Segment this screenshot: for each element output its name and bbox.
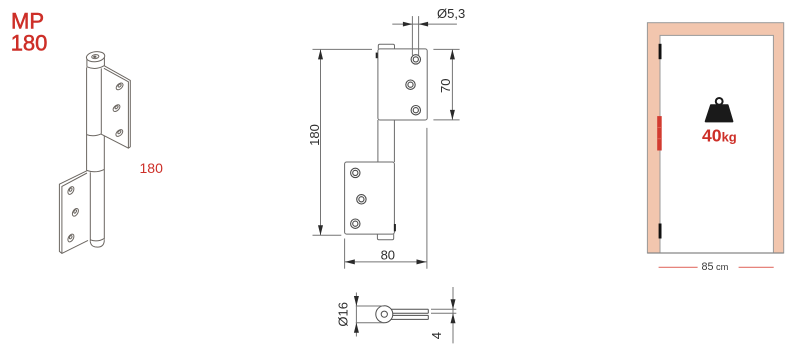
dimension 80 [345, 128, 427, 269]
door opening (white) [660, 35, 773, 253]
upper leaf (isometric) [101, 66, 130, 148]
barrel body fill [87, 66, 105, 240]
middle barrel section right edge [103, 136, 105, 240]
dimension Ø5,3 [392, 16, 457, 55]
top plate [378, 49, 427, 120]
hinge mark black bottom [659, 224, 662, 239]
lower leaf hole 1 [67, 186, 76, 196]
upper knuckle of barrel [86, 67, 88, 170]
svg-text:80: 80 [381, 248, 395, 263]
dimension 70 [433, 49, 459, 120]
barrel top cap [86, 51, 105, 69]
isometric hinge view [59, 51, 130, 254]
lower leaf hole 2 [71, 207, 80, 217]
svg-text:180: 180 [307, 124, 322, 146]
2D front view of hinge [345, 44, 428, 240]
upper leaf hole 3 [115, 128, 124, 137]
upper leaf hole 2 [112, 103, 121, 112]
barrel cross-section circle [376, 306, 393, 323]
svg-text:Ø16: Ø16 [336, 302, 351, 327]
bottom plate [345, 162, 395, 234]
hinge mark red (3 segments) [657, 116, 662, 150]
lower knuckle left edge [89, 172, 91, 242]
lower leaf (isometric) [59, 171, 88, 254]
bottom view (barrel cross-section + leaf edge) [376, 306, 429, 323]
svg-text:180: 180 [140, 160, 164, 176]
door diagram [647, 23, 783, 273]
top tab [378, 44, 394, 49]
svg-text:4: 4 [429, 332, 444, 339]
lower leaf hole 3 [67, 233, 76, 243]
door bottom line [647, 252, 783, 254]
weight icon [716, 98, 723, 105]
weld mark bottom plate [394, 224, 396, 231]
weld mark top plate [376, 53, 378, 59]
barrel bottom ring [90, 238, 104, 241]
dimension 85 cm [659, 266, 698, 268]
svg-text:85cm: 85cm [702, 261, 729, 273]
stem (barrel front view) [377, 120, 379, 162]
bottom plate holes [351, 168, 367, 228]
door frame (salmon) [647, 23, 783, 253]
dimension 4 [431, 287, 456, 343]
dimension Ø16 [356, 293, 385, 337]
leaf edge strips [390, 308, 428, 310]
barrel bottom cap [90, 240, 104, 247]
title MP 180 [11, 8, 48, 55]
bottom tab [377, 234, 393, 240]
top plate holes [406, 55, 421, 115]
upper leaf hole 1 [115, 82, 124, 91]
svg-text:70: 70 [438, 78, 453, 92]
hinge mark black top [659, 44, 662, 59]
barrel seam [87, 169, 105, 171]
svg-text:180: 180 [11, 30, 48, 55]
svg-text:Ø5,3: Ø5,3 [437, 6, 465, 21]
dimension 180 [313, 49, 373, 235]
